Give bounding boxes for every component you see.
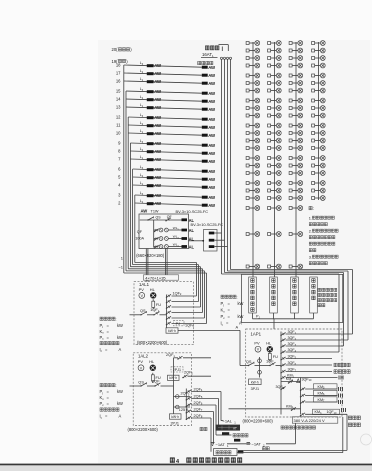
kWh meter unit col4 row5	[312, 73, 326, 78]
node service strip 1 (riser description)	[249, 277, 257, 313]
branch 2QF3 with RCD circle	[174, 392, 191, 399]
breaker AW floor 6 (second)	[202, 169, 216, 174]
kWh meter unit col4 row14	[312, 146, 326, 151]
kWh meter unit col3 row20	[289, 196, 303, 201]
label cable 4x70+1x35	[144, 275, 179, 281]
label PV and HL	[139, 287, 156, 292]
wire strip 1 bottom tail	[252, 313, 254, 319]
wire strip 4 bottom tail	[313, 313, 315, 319]
breaker AW floor 3 (first)	[147, 193, 162, 198]
kWh meter unit col4 row2	[312, 48, 326, 53]
kWh meter unit col3 row19	[289, 188, 303, 193]
kWh meter unit col1 row9	[246, 106, 260, 111]
kWh meter unit col4 row12	[312, 131, 326, 136]
contactor KM6 row	[300, 390, 343, 397]
meter kWh 1AL1	[166, 328, 178, 333]
kWh meter unit col3 row21	[289, 206, 303, 211]
kWh meter unit col1 row22	[246, 232, 260, 237]
lamp HL indicator 1AP1	[267, 346, 273, 352]
kWh meter unit col1 row3	[246, 56, 260, 61]
node floor 10 branch wire with phase L1	[116, 129, 202, 135]
kWh meter unit col3 row13	[289, 138, 303, 143]
node riser 2 top terminal circle	[223, 57, 225, 59]
kWh meter unit col3 row12	[289, 131, 303, 136]
kWh meter unit col2 row22	[268, 232, 282, 237]
wire strips joining bracket	[253, 319, 314, 329]
kWh meter unit col3 row15	[289, 156, 303, 161]
node floor 7 branch wire with phase L1	[118, 155, 202, 161]
kWh meter unit col3 row10	[289, 113, 303, 118]
kWh meter unit col2 row17	[268, 171, 282, 176]
node floor 4 branch wire with phase L1	[118, 181, 202, 187]
breaker AW floor 16 (first)	[147, 79, 162, 84]
label level gauge (ye wei ji)	[205, 46, 219, 50]
kWh meter unit col4 row20	[312, 196, 326, 201]
breaker AW floor 2 (first)	[147, 201, 162, 206]
label fire elevator supply (cjk) line2	[348, 423, 360, 427]
kWh meter unit col1 row18	[246, 181, 260, 186]
kWh meter unit col2 row23	[268, 264, 282, 269]
kWh meter unit col3 row3	[289, 56, 303, 61]
breaker AW floor 18 (first)	[147, 63, 162, 68]
label other lighting circuits note	[318, 288, 337, 307]
label 1AL1	[139, 282, 150, 287]
lamp HL indicator 1AL2	[150, 365, 156, 371]
kWh meter unit col2 row9	[268, 106, 282, 111]
node service strip 4 (riser description)	[310, 277, 318, 313]
node floor 3 branch wire with phase L3	[118, 191, 202, 197]
wire meter column 4 riser bus	[318, 42, 320, 200]
breaker AW floor 11 (first)	[147, 123, 162, 128]
breaker 3QF fan row 6 1AP1	[280, 361, 332, 367]
breaker block fan row	[234, 439, 240, 442]
breaker AL sub-box row 2	[209, 239, 225, 242]
breaker AW floor 7 (first)	[147, 157, 162, 162]
label cable BV-3x10-SC25-FC (lower)	[191, 222, 224, 227]
label load calculation block 1AL1	[100, 317, 124, 353]
wire 2QF7 wrap-down to basement row	[213, 412, 215, 444]
wire feeder cable AW box to 1AL1	[146, 249, 148, 282]
node floor 5 branch wire with phase L2	[118, 173, 202, 179]
breaker 2QF1 top row	[166, 353, 211, 359]
kWh meter unit col3 row18	[289, 181, 303, 186]
breaker AW floor 5 (second)	[202, 177, 216, 182]
breaker AW floor 6 (first)	[147, 167, 162, 172]
wire wrap from 1AP1 bottom down-left	[237, 417, 343, 453]
breaker AL row 1	[182, 228, 195, 233]
kWh meter unit col4 row18	[312, 181, 326, 186]
breaker AW floor 10 (first)	[147, 131, 162, 136]
wire riser group 3 (floors 12-10)	[128, 117, 202, 313]
breaker 3QF fan row 4 1AP1	[280, 348, 339, 354]
label 1AP1	[251, 331, 262, 336]
kWh meter unit col2 row7	[268, 88, 282, 93]
label PJ at bracket	[256, 315, 261, 320]
wire strip 2 bottom tail	[273, 313, 275, 319]
symbol -1AT2 terminal	[247, 442, 251, 444]
label staircase AT highlighted block	[216, 425, 241, 431]
kWh meter unit col1 row13	[246, 138, 260, 143]
wire 1AL1 distribution bus	[166, 295, 168, 331]
breaker 3QF fan row 8 1AP1	[280, 374, 337, 380]
kWh meter unit col2 row12	[268, 131, 282, 136]
breaker AL row 2	[182, 237, 195, 242]
node riser 4 top terminal circle	[229, 57, 231, 59]
breaker 1AL1 fan row 5 to riser	[166, 316, 205, 320]
wire strip 3 bottom tail	[294, 313, 296, 319]
fuse FU 1AL2	[151, 373, 160, 383]
node service strip 2 (riser description)	[270, 277, 278, 313]
kWh meter unit col1 row7	[246, 88, 260, 93]
wire 2QF4 wrap-down to basement row	[220, 392, 222, 421]
wire long feeder into KM2	[229, 408, 301, 410]
wire level gauge bracket	[219, 45, 229, 51]
breaker 3QF fan row 1 1AP1	[280, 330, 352, 336]
kWh meter unit col2 row13	[268, 138, 282, 143]
kWh meter unit col1 row19	[246, 188, 260, 193]
node floor 1 label	[121, 256, 124, 261]
breaker AW floor 14 (first)	[147, 97, 162, 102]
wire QS to 1QF1	[147, 314, 154, 316]
breaker AW floor 8 (first)	[147, 149, 162, 154]
kWh meter unit col4 row19	[312, 188, 326, 193]
kWh meter unit col1 row8	[246, 98, 260, 103]
kWh meter unit col3 row6	[289, 81, 303, 86]
kWh meter unit col3 row23	[289, 264, 303, 269]
kWh meter unit col1 row15	[246, 156, 260, 161]
wire 2QF6 wrap-down to basement row	[215, 405, 217, 435]
breaker AW floor 3 (second)	[202, 195, 216, 200]
wire 16AT riser 2 down and across to 1AP1 branch	[225, 59, 344, 346]
kWh meter unit col4 row3	[312, 56, 326, 61]
label 1QF2 on top fan row	[173, 291, 182, 296]
breaker block right of civil defence box	[238, 450, 244, 453]
kWh meter unit col3 row22	[289, 232, 303, 237]
kWh meter unit col4 row1	[312, 41, 326, 46]
label QF 100A main	[135, 230, 144, 241]
label 1AL1 dimensions (800x2200x600)	[137, 340, 168, 345]
node floor 17 branch wire with phase L2	[116, 69, 202, 75]
breaker AW floor 15 (second)	[202, 91, 216, 96]
kWh meter unit col4 row13	[312, 138, 326, 143]
breaker AW floor 4 (first)	[147, 183, 162, 188]
wire QS to 2QF	[147, 385, 155, 387]
label fire elevator (xiao fang dian ti)	[198, 61, 213, 64]
kWh meter unit col1 row12	[246, 131, 260, 136]
contactor KM7 row	[300, 397, 343, 404]
node floor 11 branch wire with phase L2	[116, 121, 202, 127]
wire 2QF5 wrap-down to basement row	[218, 399, 220, 427]
lamp HL indicator 1AL1	[150, 293, 156, 299]
band bottom grey strip	[0, 465, 372, 471]
contactor KM4 with motor-delta and 3QF10	[281, 377, 312, 383]
wire AW box top feeder with QS QF	[140, 215, 182, 222]
breaker 2QF7 fan row	[186, 407, 214, 413]
wire AW box to AL sub-box with junction	[189, 240, 205, 242]
kWh meter unit col4 row7	[312, 88, 326, 93]
wire riser group 1 (floors 18-16)	[124, 65, 207, 324]
breaker 1QF1 main 1AL1	[150, 307, 160, 315]
kWh meter unit col1 row1	[246, 41, 260, 46]
breaker AL sub-box row 3	[209, 245, 228, 248]
breaker AW floor 2 (second)	[202, 203, 216, 208]
breaker AW floor 11 (second)	[202, 125, 216, 130]
label 1AL2	[138, 354, 149, 359]
wire AW box internal bus	[153, 220, 155, 248]
breaker AW floor 10 (second)	[202, 133, 216, 138]
wire KM bus vertical	[300, 378, 302, 415]
wire AW box meter row 1 with kWh meters	[154, 226, 182, 232]
breaker 2QF8 fan row	[186, 414, 211, 420]
breaker AW floor 13 (first)	[147, 105, 162, 110]
wire -1AT1 to -1AT2	[227, 443, 251, 445]
breaker 1QF main 1AP1	[266, 359, 276, 367]
label 1AP1 dimensions (800x2200x600)	[243, 418, 274, 423]
kWh meter unit col1 row21	[246, 206, 260, 211]
breaker 1AL1 fan row 3 to riser	[166, 305, 201, 309]
scan tint overlay	[98, 40, 370, 464]
label -1AT1 circuit	[216, 442, 230, 448]
label future sockets (cjk) row 3QF7	[334, 370, 350, 374]
wire 1AL1 kWh output to 1AP1	[178, 330, 249, 365]
kWh meter unit col1 row4	[246, 63, 260, 68]
kWh meter unit col1 row10	[246, 113, 260, 118]
meter kWh 1AL2 lower	[170, 414, 182, 419]
node riser 1 top terminal circle	[220, 57, 222, 59]
panel public services box outline	[241, 274, 342, 322]
meter PV voltmeter 1AL1	[139, 293, 145, 299]
node floor 2 branch wire with phase L2	[118, 199, 202, 205]
kWh meter unit col4 row4	[312, 63, 326, 68]
breaker AW floor 18 (second)	[202, 65, 216, 70]
kWh meter unit col3 row8	[289, 98, 303, 103]
kWh meter unit col1 row6	[246, 81, 260, 86]
label spare under -1AT2	[263, 447, 270, 450]
kWh meter unit col3 row17	[289, 171, 303, 176]
node floor 13 branch wire with phase L1	[116, 103, 202, 109]
breaker 1AL1 fan row 4 to riser	[166, 311, 203, 315]
meter PV voltmeter 1AP1	[255, 346, 261, 352]
kWh meter unit col2 row14	[268, 146, 282, 151]
panel 1AL2 dashed outline	[133, 353, 191, 426]
panel 1AP1 dashed outline	[246, 329, 342, 417]
kWh meter unit col3 row14	[289, 146, 303, 151]
rule bottom separator line	[0, 464, 372, 466]
breaker AW floor 17 (second)	[202, 73, 216, 78]
breaker 2QF4 fan row	[186, 387, 221, 393]
breaker AW floor 15 (first)	[147, 89, 162, 94]
meter 2PJ1 dashed box	[171, 367, 183, 372]
wire 1QF1 to bus	[160, 314, 167, 316]
panel 1AL1 dashed outline	[134, 282, 194, 345]
load mark row KM1	[339, 376, 343, 380]
kWh meter unit col3 row16	[289, 163, 303, 168]
wire 2QF to bus 1AL2	[161, 385, 174, 387]
breaker 1AL1 fan row 1 to riser	[166, 294, 197, 298]
wire -1AT2 row to fan riser drop	[266, 423, 296, 444]
breaker AW floor 7 (second)	[202, 159, 216, 164]
breaker AW floor 12 (second)	[202, 117, 216, 122]
wire meter column 3 riser bus	[295, 42, 297, 277]
kWh meter unit col2 row8	[268, 98, 282, 103]
caption figure 4 title	[170, 458, 242, 465]
breaker 1AL1 fan row 6 to riser	[166, 322, 207, 326]
wire 1AL2 right fan bus	[185, 389, 187, 420]
contactor KM5 row	[300, 384, 343, 391]
kWh meter unit col3 row11	[289, 123, 303, 128]
breaker AW floor 9 (first)	[147, 141, 162, 146]
label 1AL2 dimensions (800x2200x600)	[128, 427, 159, 432]
branch 125A with RCD circle	[174, 405, 191, 412]
wire feeder cable AW box second pair	[166, 249, 168, 275]
node floor 9 branch wire with phase L3	[118, 139, 202, 145]
wire wrap from KM3 row down-left	[244, 414, 348, 450]
label -1AL1 circuit	[221, 419, 236, 425]
kWh meter unit col3 row5	[289, 73, 303, 78]
switch QS 1AP1	[246, 359, 254, 366]
kWh meter unit col1 row11	[246, 123, 260, 128]
kWh meter unit col3 row9	[289, 106, 303, 111]
wire meter column 1 riser bus	[252, 42, 254, 277]
kWh meter unit col3 row4	[289, 63, 303, 68]
meter kWh small 1AL2 upper	[168, 375, 180, 380]
kWh meter unit col2 row21	[268, 206, 282, 211]
kWh meter unit col4 row8	[312, 98, 326, 103]
wire 16AT riser 4 down and across to 1AP1 branch	[231, 59, 353, 334]
node service strip 3 (riser description)	[291, 277, 299, 313]
label PV and HL 1AL2	[138, 359, 155, 364]
node floor 19 label (machine room)	[112, 59, 129, 64]
kWh meter unit col3 row7	[289, 88, 303, 93]
wire 16AT riser 3 down and across to 1AP1 branch	[228, 59, 349, 340]
meter PV voltmeter 1AL2	[138, 365, 144, 371]
label fire elevator supply (cjk) line1	[348, 416, 360, 420]
panel AW unit box outline	[139, 214, 189, 249]
wire QS to 1QF 1AP1	[255, 365, 271, 367]
node floor 12 branch wire with phase L3	[116, 113, 202, 119]
kWh meter unit col1 row23	[246, 264, 260, 269]
kWh meter unit col4 row9	[312, 106, 326, 111]
kWh meter unit col2 row18	[268, 181, 282, 186]
kWh meter unit col2 row3	[268, 56, 282, 61]
kWh meter unit col1 row17	[246, 171, 260, 176]
node floor 20 label (water tank room)	[112, 47, 133, 52]
kWh meter unit col2 row4	[268, 63, 282, 68]
fuse FU 1AL1	[152, 299, 161, 309]
contactor KM2 on feeder	[286, 404, 296, 411]
kWh meter unit col2 row6	[268, 81, 282, 86]
label PV and HL 1AP1	[254, 341, 272, 346]
kWh meter unit col4 row6	[312, 81, 326, 86]
breaker 3QF fan row 5 1AP1	[280, 355, 332, 361]
kWh meter unit col2 row16	[268, 163, 282, 168]
kWh meter unit col1 row20	[246, 196, 260, 201]
breaker 2QF main	[152, 379, 161, 387]
kWh meter unit col1 row16	[246, 163, 260, 168]
kWh meter unit col3 row2	[289, 48, 303, 53]
label load calculation block 1AL2	[100, 383, 124, 419]
node floor 16 branch wire with phase L1	[116, 77, 202, 83]
wire riser group 2 (floors 15-13)	[126, 91, 205, 318]
wire riser group 5 (floors 6-4)	[133, 169, 199, 302]
kWh meter unit col2 row20	[268, 196, 282, 201]
kWh meter unit col1 row14	[246, 146, 260, 151]
breaker AW floor 13 (second)	[202, 107, 216, 112]
breaker 1AL1 fan row 2 to riser	[166, 300, 199, 304]
breaker 2QF2 row	[182, 371, 211, 379]
breaker AW floor 5 (first)	[147, 175, 162, 180]
kWh meter unit col4 row10	[312, 113, 326, 118]
wire riser group 4 (floors 9-7)	[130, 143, 200, 307]
kWh meter unit col2 row5	[268, 73, 282, 78]
wire 1AP1 main bus	[280, 332, 282, 415]
label 1QF5	[185, 323, 194, 328]
breaker AL sub-box row 1	[209, 232, 222, 235]
switch QS 1AL2	[138, 380, 146, 387]
breaker AL row 3	[182, 245, 195, 250]
kWh meter unit col1 row5	[246, 73, 260, 78]
kWh meter unit col1 row2	[246, 48, 260, 53]
wire 1AL2 input feeder	[130, 385, 142, 387]
label -1AT2 circuit	[252, 441, 266, 447]
label future lighting (cjk) row 3QF6	[334, 363, 350, 367]
label load calculation block right	[221, 295, 244, 327]
label notes text lines	[309, 216, 338, 265]
watermark faint circle	[361, 434, 372, 445]
switch QS 1AL1	[140, 308, 147, 315]
kWh meter unit col4 row16	[312, 163, 326, 168]
wire 16AT riser 1 down and across to 1AP1 branch	[222, 59, 340, 352]
label notes title	[309, 206, 314, 211]
label 380V-A 220/24V	[292, 417, 338, 423]
node floor -1 label	[118, 265, 123, 270]
label 16AT with underline	[201, 52, 218, 58]
panel civil defence circuit box	[214, 449, 238, 456]
label ammeter A near 1AP1 feed	[236, 325, 239, 330]
breaker 3QF fan row 2 1AP1	[280, 336, 348, 342]
kWh meter unit col2 row11	[268, 123, 282, 128]
breaker AW floor 8 (second)	[202, 151, 216, 156]
contactor KM3 with 1QF10 fire elevator feed	[300, 408, 347, 416]
kWh meter unit col2 row10	[268, 113, 282, 118]
meter kWh 1AP1	[249, 379, 262, 385]
meter PJ dashed box 1AL1	[174, 321, 185, 326]
node floor 15 branch wire with phase L3	[116, 87, 202, 93]
breaker AW floor 9 (second)	[202, 143, 216, 148]
node floor 14 branch wire with phase L2	[116, 95, 202, 101]
breaker AW floor 16 (second)	[202, 81, 216, 86]
wire riser group 6 (floors 3-2)	[135, 195, 197, 296]
panel AL sub-box outline	[204, 230, 218, 252]
label pressurised fan (zheng ya feng ji)	[216, 434, 248, 437]
wire AW box meter row 2 with kWh meters	[154, 235, 182, 241]
breaker 3QF fan row 7 1AP1	[280, 368, 332, 374]
wire 1AL2 distribution bus	[173, 358, 175, 419]
breaker AW floor 4 (second)	[202, 185, 216, 190]
kWh meter unit col2 row2	[268, 48, 282, 53]
fuse FU 1AP1	[268, 351, 278, 361]
kWh meter unit col2 row1	[268, 41, 282, 46]
kWh meter unit col4 row17	[312, 171, 326, 176]
label cut lighting on fire (cjk)	[281, 426, 316, 429]
kWh meter unit col3 row1	[289, 41, 303, 46]
label spare (bei yong) 1AL2	[200, 427, 207, 430]
breaker 3QF fan row 3 1AP1	[280, 342, 343, 348]
breaker block under staircase label	[222, 432, 229, 435]
node floor 18 branch wire with phase L3	[116, 61, 202, 67]
label AW box dimensions (660x820x180)	[136, 253, 165, 258]
kWh meter unit col4 row11	[312, 123, 326, 128]
